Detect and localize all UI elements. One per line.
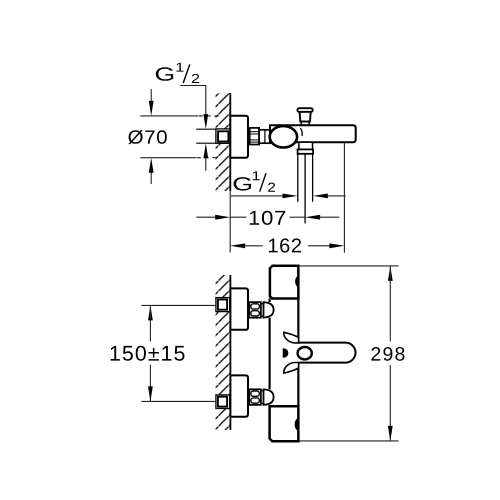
temperature knob (plan, bottom) — [270, 406, 299, 441]
escutcheon bottom (plan) — [230, 375, 248, 416]
dim 298 top extension — [300, 265, 399, 267]
diverter knob base — [301, 122, 309, 125]
wall pipe G1/2 square fitting — [216, 129, 230, 143]
pipe edge extension lines — [196, 128, 216, 130]
outlet neck — [299, 142, 313, 149]
dim 298 bottom extension — [300, 440, 399, 442]
arrow up to pipe bottom — [205, 156, 207, 171]
label G1/2 bottom — [234, 177, 251, 191]
wall surface extension line — [229, 191, 231, 253]
dim Ø70 upper arrow — [150, 89, 152, 112]
outlet centerline — [304, 154, 306, 224]
wall hatched strip — [216, 275, 231, 430]
label 162 — [269, 238, 301, 252]
inlet square fitting bottom — [216, 395, 230, 409]
dim 298 line upper — [388, 266, 393, 281]
leader G1/2 top — [180, 86, 206, 118]
knob mark top — [295, 276, 298, 287]
label Ø70 — [128, 130, 167, 144]
spout fillet leaf bottom — [284, 363, 299, 374]
escutcheon top (plan) — [230, 288, 248, 329]
union neck bottom — [261, 391, 264, 403]
diverter knob (plan, top) — [270, 266, 298, 299]
label 298 — [371, 347, 404, 361]
body curvature arc — [300, 128, 302, 136]
inlet pipe line top / dim 150 upper extension — [142, 304, 217, 306]
dim 107 right segment and arrow — [290, 216, 306, 218]
wall surface line — [229, 93, 231, 191]
spout fillet leaf top — [284, 332, 299, 343]
dim 107 left tail and arrow — [196, 216, 218, 218]
dim 162 line — [230, 243, 245, 248]
dim 150±15 line lower — [149, 365, 151, 402]
outlet thread outer lines — [297, 154, 299, 202]
diverter knob stem — [300, 112, 311, 122]
dim G1/2 outlet line right — [313, 194, 328, 199]
wall hatched strip — [216, 93, 231, 191]
eco button mark — [283, 348, 289, 357]
hex nut top (plan) — [249, 302, 261, 318]
escutcheon (side) — [230, 116, 248, 158]
cartridge housing collar — [259, 130, 270, 143]
knob mark bottom — [295, 418, 299, 430]
hex nut bottom (plan) — [249, 389, 261, 405]
inlet pipe line bottom / dim 150 lower extension — [142, 400, 217, 402]
union cone top — [264, 302, 274, 317]
body bar (spout housing, side) — [270, 125, 356, 142]
body column right edge — [297, 266, 299, 343]
body column left edge — [269, 299, 271, 303]
dim 298 line lower — [389, 365, 391, 441]
dim Ø70 bottom extension line — [140, 157, 196, 159]
dim 162 right extension line — [343, 143, 345, 253]
dim Ø70 lower arrow — [150, 171, 152, 185]
union cone bottom — [264, 389, 274, 404]
dim Ø70 top extension line — [140, 115, 198, 117]
thermostat handle ellipse — [270, 126, 297, 147]
spout circle — [298, 347, 312, 359]
dim 150±15 line upper — [148, 305, 153, 320]
dim G1/2 outlet line left — [231, 195, 286, 197]
spout (plan) — [298, 343, 355, 363]
hex nut (side) — [250, 128, 259, 145]
label G1/2 top — [156, 67, 173, 81]
union neck top — [261, 304, 264, 316]
diverter knob cap — [297, 108, 312, 112]
label 150±15 — [111, 346, 185, 361]
label 107 — [250, 211, 286, 225]
inlet square fitting top — [216, 298, 230, 312]
outlet collar — [298, 149, 314, 153]
wall surface line — [229, 275, 231, 430]
